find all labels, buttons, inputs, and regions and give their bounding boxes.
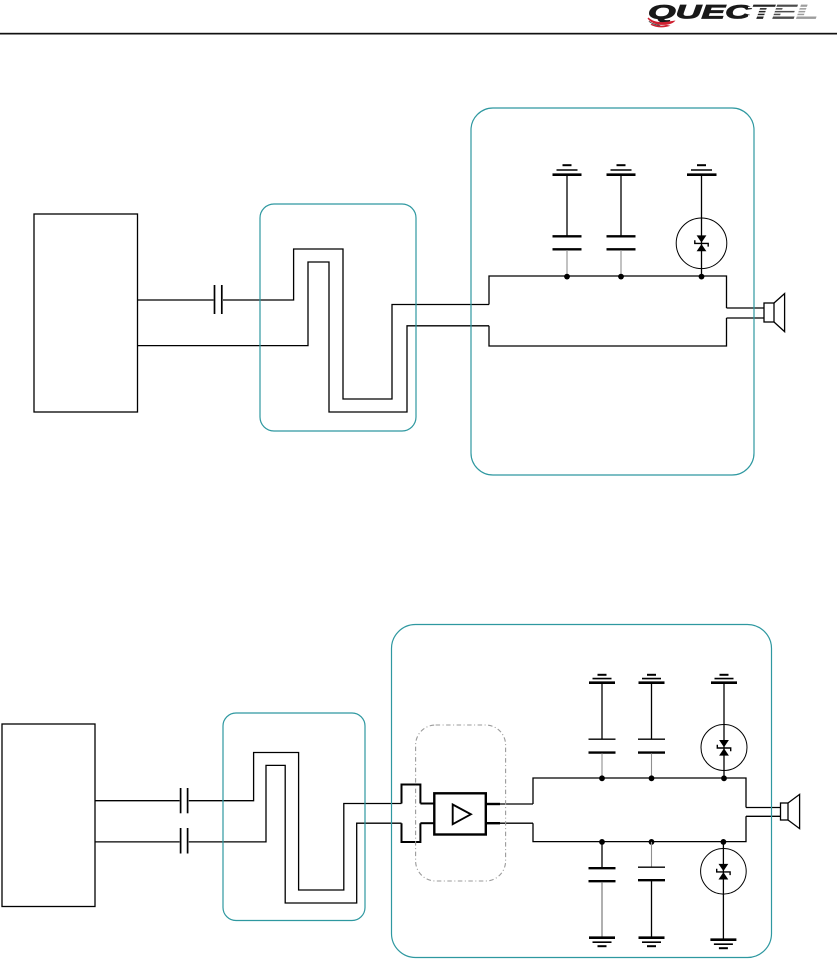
header rule <box>0 33 837 35</box>
node dot D3/U3 bottom <box>721 839 727 845</box>
capacitor C1 (series) <box>215 285 222 314</box>
capacitor C6 <box>589 683 616 778</box>
node dot C3/U1 <box>618 274 624 280</box>
wire U1 to speaker (-) <box>727 317 765 319</box>
wire J1 to amp (-) <box>420 822 434 824</box>
wire C1 to meander + meander trace P (outer) <box>223 249 489 399</box>
capacitor C4 (series, +) <box>181 788 188 813</box>
ground (above D1) <box>687 165 717 175</box>
meander box 1 (teal) <box>260 204 416 431</box>
capacitor C3 <box>607 176 636 277</box>
ground (above C6) <box>589 675 615 683</box>
connector J1 (cross) <box>402 785 421 843</box>
codec box 1 (teal) <box>471 108 754 475</box>
capacitor C8 <box>589 842 616 938</box>
capacitor C9 <box>638 842 665 938</box>
wire amp to U3 (-) <box>500 822 533 824</box>
node dot C7/U3 top <box>649 775 655 781</box>
TVS diode D3 <box>701 842 747 940</box>
node dot D1/U1 <box>699 274 705 280</box>
capacitor C2 <box>553 176 582 277</box>
meander box 2 (teal) <box>223 713 365 921</box>
amp output pin (+) <box>486 803 500 805</box>
amp output pin (-) <box>486 822 500 824</box>
capacitor C5 (series, -) <box>181 828 188 854</box>
wire U3 to speaker (+) <box>746 807 781 809</box>
speaker driver block U3 <box>533 778 746 842</box>
wire amp to U3 (+) <box>500 803 533 805</box>
ground (above C2) <box>553 165 582 175</box>
TVS diode D2 <box>701 683 747 778</box>
node dot C6/U3 top <box>599 775 605 781</box>
ground (below C9) <box>639 938 665 947</box>
TVS diode D1 <box>676 176 727 277</box>
node dot C2/U1 <box>564 274 570 280</box>
speaker SPK1 <box>764 294 785 332</box>
ground (below C8) <box>589 938 615 947</box>
audio amplifier U2 <box>434 793 486 834</box>
wire C4 to meander + meander trace P (outer) <box>189 753 402 891</box>
wire module to C4 <box>95 800 180 802</box>
wire C5 to meander + meander trace N (inner) <box>189 765 402 903</box>
ground (above C3) <box>607 165 636 175</box>
module block 2 (left) <box>2 724 95 907</box>
capacitor C7 <box>638 683 665 778</box>
wire module to C1 <box>138 299 214 301</box>
module block (left) <box>34 214 138 412</box>
ground (above C7) <box>639 675 665 683</box>
wire module to meander + meander trace N (inner) <box>138 262 490 412</box>
node dot D2/U3 top <box>721 775 727 781</box>
wire U1 to speaker (+) <box>727 307 765 309</box>
node dot C9/U3 bottom <box>649 839 655 845</box>
speaker driver block U1 <box>489 276 727 346</box>
ground (below D3) <box>710 940 736 949</box>
wire module to C5 <box>95 841 180 843</box>
external amp dashed box <box>416 725 506 881</box>
node dot C8/U3 bottom <box>599 839 605 845</box>
wire J1 to amp (+) <box>420 803 434 805</box>
Quectel logo <box>648 2 821 27</box>
codec box 2 (teal) <box>392 625 772 958</box>
wire U3 to speaker (-) <box>746 815 781 817</box>
speaker SPK2 <box>781 794 800 828</box>
ground (above D2) <box>711 675 737 683</box>
